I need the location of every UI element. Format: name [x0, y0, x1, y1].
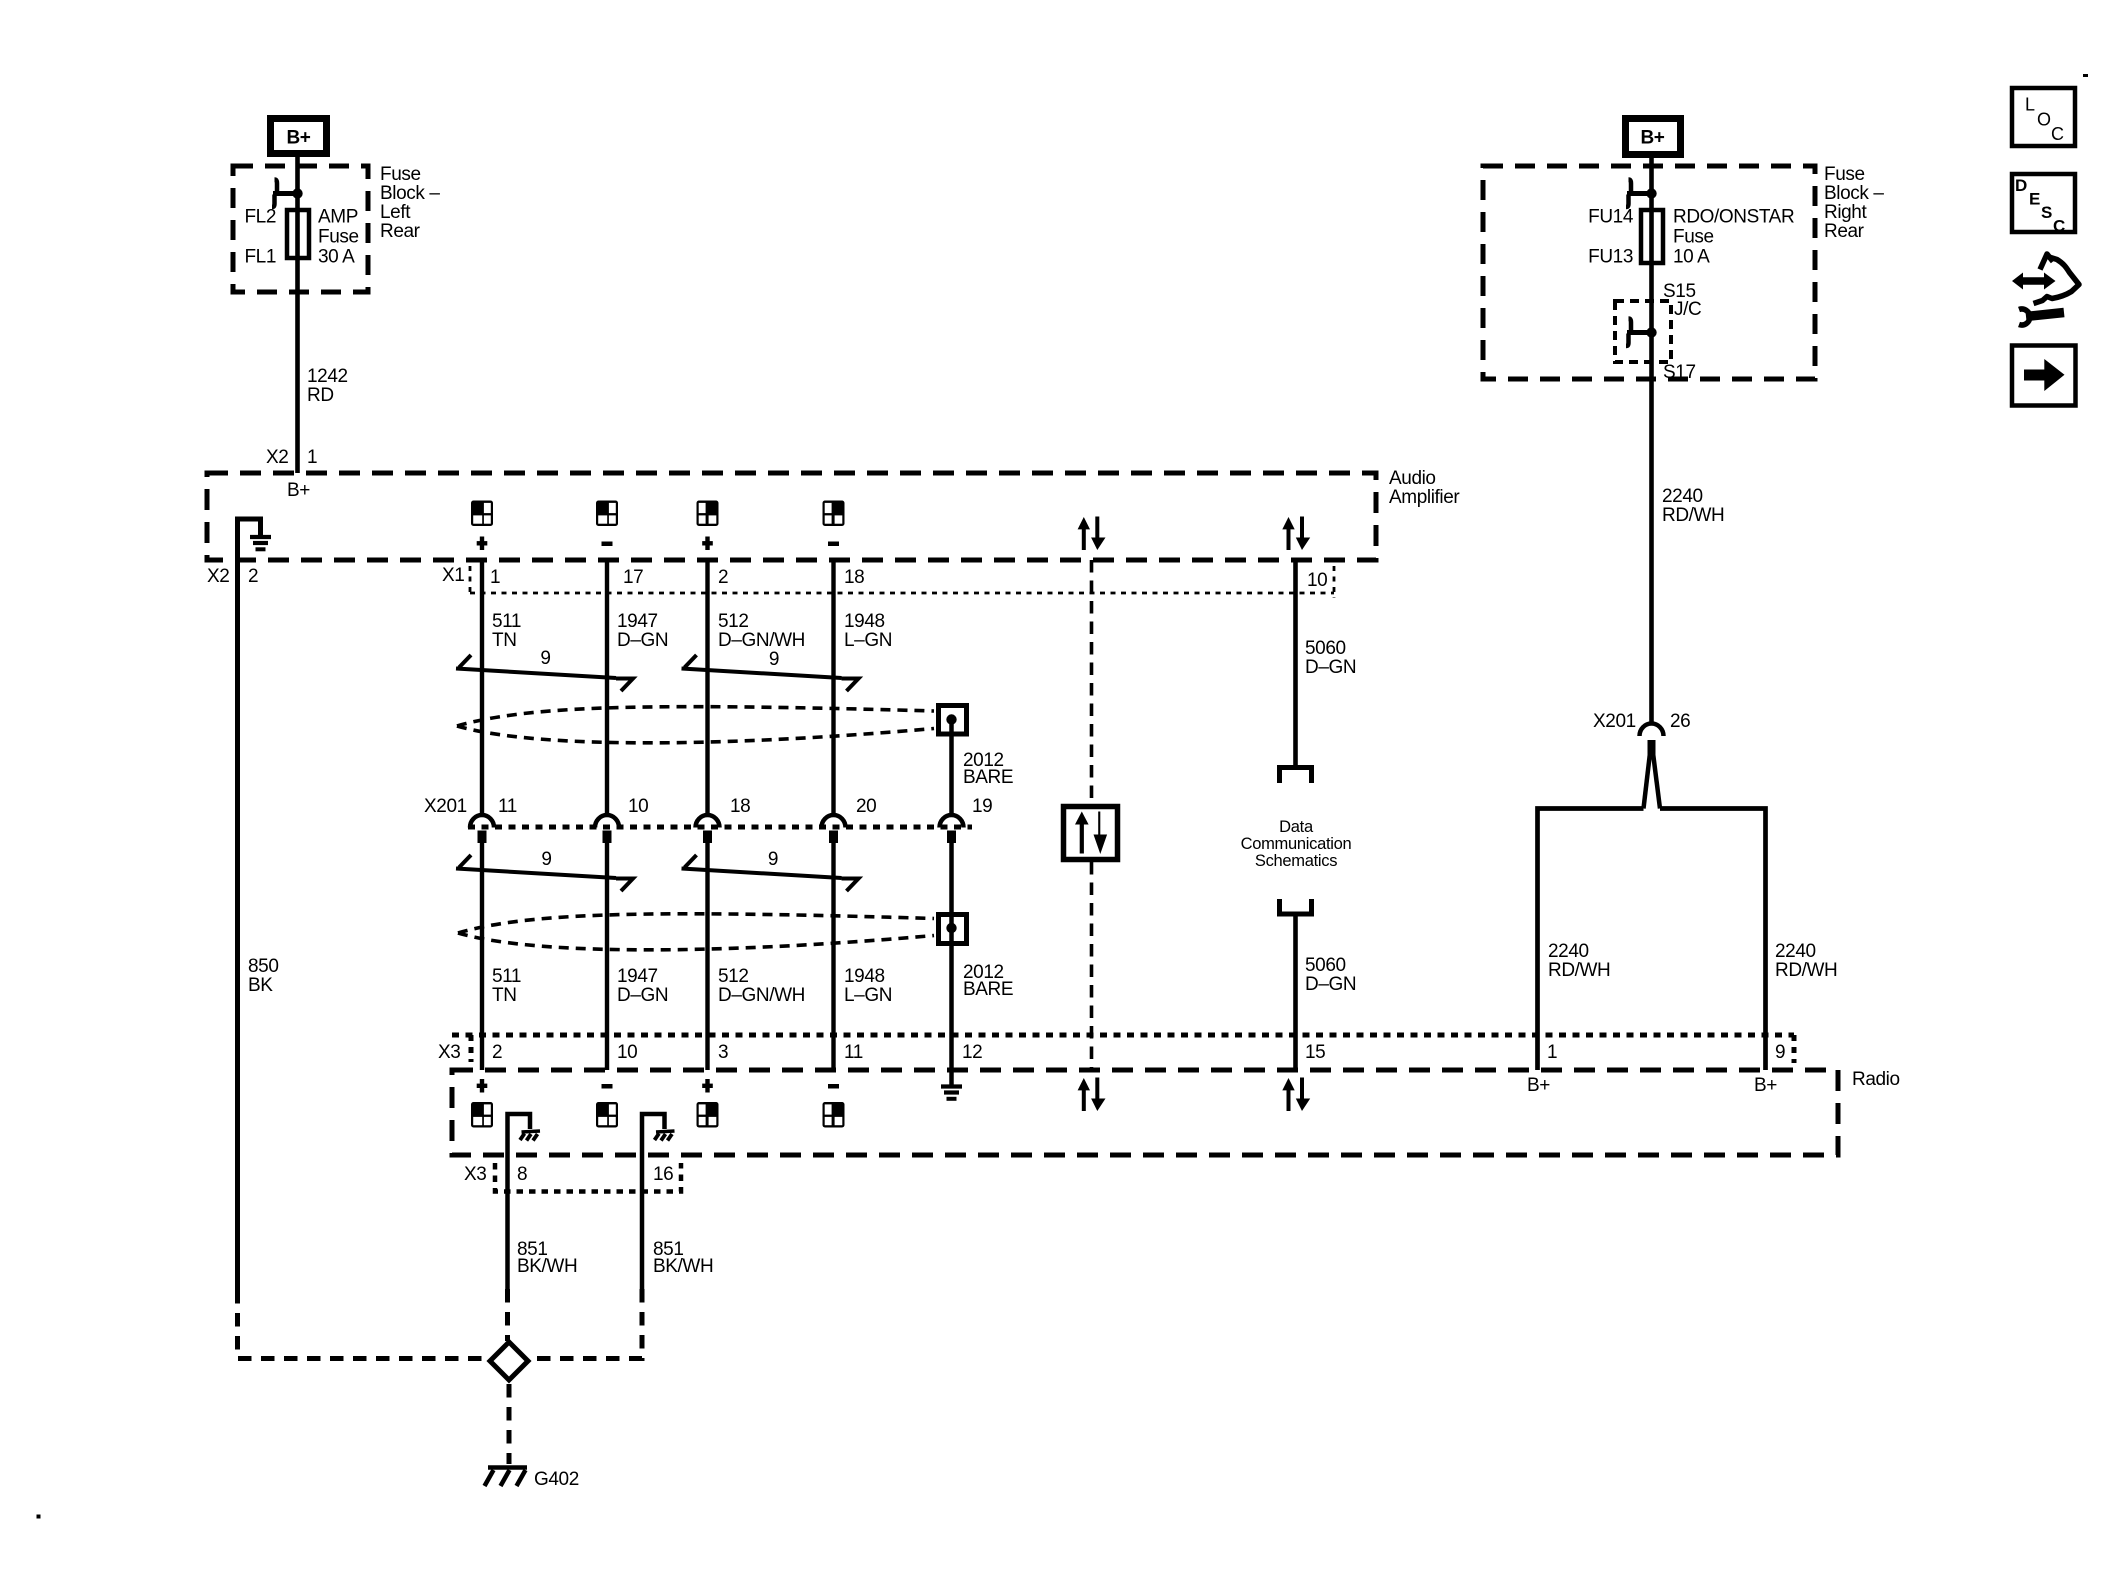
polarity label - (amp 2)	[602, 542, 613, 547]
svg-text:E: E	[2029, 190, 2040, 209]
label S17 (splice)	[1663, 362, 1696, 383]
svg-text:1948: 1948	[844, 611, 885, 632]
wire label 851 BK/WH (left)	[517, 1239, 577, 1277]
svg-text:2240: 2240	[1775, 941, 1816, 962]
svg-text:Communication: Communication	[1241, 835, 1352, 853]
svg-text:X201: X201	[424, 796, 467, 817]
speaker symbol (amp channel 4)	[823, 501, 845, 527]
radio internal ground wire (pin 16) with chassis ground	[642, 1114, 675, 1289]
wire 1948 L-GN (amp to X201)	[831, 560, 835, 816]
svg-text:Block –: Block –	[1824, 183, 1884, 204]
svg-text:9: 9	[769, 649, 779, 670]
label AMP Fuse 30 A	[318, 207, 359, 268]
speaker symbol (radio channel 4)	[823, 1102, 845, 1128]
svg-text:2240: 2240	[1548, 941, 1589, 962]
pin 2 label (X3/radio)	[492, 1042, 502, 1063]
twisted pair count 9 (lower right)	[768, 849, 778, 870]
fuse FU13/FU14 RDO/ONSTAR 10 A	[1641, 210, 1663, 263]
svg-text:511: 511	[492, 966, 521, 987]
speaker symbol (amp channel 3)	[697, 501, 719, 527]
svg-text:17: 17	[623, 567, 643, 588]
wire label 1948 (upper)	[844, 611, 892, 651]
wire 1947 D-GN (amp to X201)	[605, 560, 609, 816]
svg-text:10 A: 10 A	[1673, 247, 1710, 268]
radio box (dashed)	[452, 1070, 1838, 1155]
serial data arrows pair 2 (radio)	[1282, 1078, 1310, 1112]
svg-text:BK/WH: BK/WH	[653, 1256, 713, 1277]
connector X201 line (dotted)	[468, 825, 972, 830]
wire 511 TN (amp to X201)	[480, 560, 484, 816]
connector X1 end bracket (dotted)	[1333, 566, 1336, 598]
fuse FL1/FL2 AMP Fuse 30 A	[287, 210, 309, 258]
wire 1947 (X201 to radio)	[605, 843, 609, 1070]
svg-text:2: 2	[492, 1042, 502, 1063]
power terminal B+ (battery feed, left)	[271, 119, 327, 154]
audio amplifier box (dashed)	[207, 473, 1376, 560]
label FU14	[1588, 207, 1634, 228]
speaker symbol (radio channel 3)	[697, 1102, 719, 1128]
drain junction box (lower) with dot	[939, 915, 967, 944]
svg-text:L–GN: L–GN	[844, 985, 892, 1006]
connector X201 terminal pin 26	[1640, 723, 1664, 757]
svg-text:TN: TN	[492, 985, 517, 1006]
svg-text:Rear: Rear	[380, 221, 421, 242]
serial data arrows pair 1 (amp)	[1078, 517, 1106, 551]
svg-text:8: 8	[517, 1164, 527, 1185]
svg-text:1947: 1947	[617, 966, 658, 987]
wire label 512 (lower)	[718, 966, 805, 1006]
pin 19 label (X201)	[972, 796, 992, 817]
speaker symbol (amp channel 1)	[471, 501, 493, 527]
pin 2 label (X1)	[718, 567, 728, 588]
svg-text:RD/WH: RD/WH	[1775, 960, 1837, 981]
splice diamond (ground junction)	[490, 1342, 528, 1380]
wire 511 (X201 to radio)	[480, 843, 484, 1070]
wire label 851 BK/WH (right)	[653, 1239, 713, 1277]
wire 850 BK (solid segment)	[235, 517, 240, 1291]
label FL1	[244, 247, 276, 268]
svg-text:D: D	[2015, 176, 2027, 195]
svg-text:Fuse: Fuse	[318, 227, 359, 248]
wire label 850 BK	[248, 956, 279, 996]
wire 2240 RD/WH split (Y and branch rectangle)	[1538, 753, 1766, 1070]
off-page bracket (upper)	[1280, 768, 1312, 784]
svg-text:D–GN: D–GN	[1305, 974, 1356, 995]
connector X1 line (dotted)	[470, 592, 1334, 595]
svg-text:18: 18	[844, 567, 864, 588]
svg-text:TN: TN	[492, 630, 517, 651]
svg-text:X3: X3	[438, 1042, 460, 1063]
svg-text:9: 9	[540, 648, 550, 669]
connector X3 label	[438, 1042, 460, 1063]
connector X201 terminal (pin 18)	[696, 815, 720, 843]
svg-text:1242: 1242	[307, 366, 348, 387]
pin 9 label (X3/radio)	[1775, 1042, 1785, 1063]
svg-text:1: 1	[490, 567, 500, 588]
svg-text:26: 26	[1670, 711, 1690, 732]
pin 18 label (X1)	[844, 567, 864, 588]
svg-text:B+: B+	[1527, 1075, 1550, 1096]
svg-text:BARE: BARE	[963, 979, 1013, 1000]
svg-text:30 A: 30 A	[318, 247, 355, 268]
pin 10 label (X201)	[628, 796, 648, 817]
svg-text:X201: X201	[1593, 711, 1636, 732]
node B+ label (radio pin 9)	[1754, 1075, 1777, 1096]
speaker symbol (radio channel 1)	[471, 1102, 493, 1128]
fuse block - left rear (dashed box)	[233, 166, 368, 292]
label S15 (splice)	[1663, 281, 1696, 302]
svg-text:Fuse: Fuse	[1824, 164, 1865, 185]
pin 3 label (X3/radio)	[718, 1042, 728, 1063]
svg-text:512: 512	[718, 611, 749, 632]
svg-text:B+: B+	[1640, 128, 1664, 149]
power terminal B+ (battery feed, right)	[1626, 119, 1681, 155]
svg-text:2: 2	[718, 567, 728, 588]
svg-text:S17: S17	[1663, 362, 1696, 383]
wire 2012 BARE (drain, lower segment)	[949, 843, 954, 1070]
pin 11 label (X3/radio)	[844, 1042, 863, 1063]
svg-text:C: C	[2051, 124, 2064, 144]
label J/C	[1674, 299, 1701, 320]
svg-text:Left: Left	[380, 202, 411, 223]
ground G402 (chassis ground)	[485, 1468, 528, 1487]
connector X201 label	[424, 796, 467, 817]
wire 5060 D-GN (upper segment)	[1293, 560, 1298, 766]
wire label 511 (upper)	[492, 611, 521, 651]
svg-text:FU14: FU14	[1588, 207, 1634, 228]
svg-text:FU13: FU13	[1588, 247, 1633, 268]
svg-text:12: 12	[962, 1042, 982, 1063]
svg-text:10: 10	[1307, 570, 1327, 591]
svg-text:Radio: Radio	[1852, 1069, 1900, 1090]
node B+ label (radio pin 1)	[1527, 1075, 1550, 1096]
svg-text:D–GN: D–GN	[1305, 657, 1356, 678]
label Radio	[1852, 1069, 1900, 1090]
pin 20 label (X201)	[856, 796, 876, 817]
svg-text:S: S	[2041, 203, 2052, 222]
svg-text:511: 511	[492, 611, 521, 632]
connector X3 line (dotted)	[452, 1033, 1794, 1038]
pin 17 label (X1)	[623, 567, 643, 588]
connector X2 pin 1 label	[266, 447, 317, 468]
wire 2012 BARE (drain, upper segment)	[949, 720, 954, 816]
svg-text:X3: X3	[464, 1164, 486, 1185]
wire label 1947 (upper)	[617, 611, 668, 651]
wire label 512 (upper)	[718, 611, 805, 651]
label Data Communication Schematics	[1241, 818, 1352, 870]
connector X201 terminal (pin 19)	[940, 815, 964, 843]
label Fuse Block - Left Rear	[380, 164, 440, 242]
polarity label + (radio 1)	[477, 1079, 488, 1093]
polarity label + (radio 3)	[702, 1079, 713, 1093]
pin 18 label (X201)	[730, 796, 750, 817]
fuse block - right rear (dashed box)	[1483, 166, 1815, 379]
svg-text:RD: RD	[307, 385, 334, 406]
wire 850 BK (dashed segment)	[238, 1290, 485, 1359]
svg-text:X1: X1	[442, 565, 464, 586]
serial data arrows pair 2 (amp)	[1282, 517, 1310, 551]
pin 26 label	[1670, 711, 1690, 732]
polarity label - (radio 4)	[828, 1084, 839, 1089]
shield ellipse (upper, dashed)	[457, 707, 934, 743]
svg-text:BARE: BARE	[963, 767, 1013, 788]
svg-text:X2: X2	[266, 447, 288, 468]
icon box LOC	[2012, 88, 2075, 146]
ground symbol inside amplifier	[250, 537, 271, 549]
svg-text:D–GN/WH: D–GN/WH	[718, 630, 805, 651]
svg-text:10: 10	[617, 1042, 637, 1063]
twisted pair symbol (lower right pair)	[682, 855, 859, 891]
wire label 2240 RD/WH (left branch)	[1548, 941, 1610, 981]
pin 8 label	[517, 1164, 527, 1185]
serial data circuit (dashed wire, lower)	[1090, 862, 1094, 1070]
svg-text:Schematics: Schematics	[1255, 852, 1337, 870]
connector X201 terminal (pin 20)	[822, 815, 846, 843]
polarity label - (amp 4)	[828, 542, 839, 547]
svg-text:2: 2	[248, 566, 258, 587]
svg-text:C: C	[2053, 217, 2065, 236]
wire to G402 (dashed)	[507, 1384, 512, 1464]
svg-text:1948: 1948	[844, 966, 885, 987]
connector X201 terminal (pin 10)	[595, 815, 619, 843]
junction connector J/C box (dashed)	[1615, 301, 1671, 362]
pin 1 label (X3/radio)	[1547, 1042, 1557, 1063]
pin 12 label (X3/radio)	[962, 1042, 982, 1063]
polarity label - (radio 2)	[602, 1084, 613, 1089]
pin 10 label (X1)	[1307, 570, 1327, 591]
wire label 5060 D-GN (lower)	[1305, 955, 1356, 995]
speaker symbol (radio channel 2)	[596, 1102, 618, 1128]
svg-text:FL1: FL1	[244, 247, 276, 268]
svg-text:RD/WH: RD/WH	[1662, 505, 1724, 526]
svg-text:20: 20	[856, 796, 876, 817]
connector X1 bracket (dotted)	[469, 566, 472, 593]
polarity label + (amp 3)	[702, 537, 713, 551]
twisted pair symbol (upper right pair)	[682, 655, 859, 691]
svg-text:1: 1	[307, 447, 317, 468]
icon vehicle-with-arrows and wrench	[2012, 254, 2079, 325]
svg-text:512: 512	[718, 966, 749, 987]
connector X1 label	[442, 565, 464, 586]
svg-text:5060: 5060	[1305, 955, 1346, 976]
svg-text:BK/WH: BK/WH	[517, 1256, 577, 1277]
label FU13	[1588, 247, 1633, 268]
svg-text:Data: Data	[1279, 818, 1314, 836]
svg-text:19: 19	[972, 796, 992, 817]
wire from right B+ through fuse block (2240 RD/WH upper)	[1649, 158, 1654, 723]
svg-text:Rear: Rear	[1824, 221, 1865, 242]
svg-text:Block –: Block –	[380, 183, 440, 204]
speaker symbol (amp channel 2)	[596, 501, 618, 527]
wire label 2012 BARE (upper)	[963, 750, 1013, 788]
serial data arrows pair 1 (radio)	[1078, 1078, 1106, 1112]
svg-text:Amplifier: Amplifier	[1389, 487, 1460, 508]
wire 851 BK/WH left (dashed segment)	[505, 1289, 510, 1341]
pin 11 label (X201)	[498, 796, 517, 817]
svg-text:BK: BK	[248, 975, 273, 996]
wire label 1242 RD	[307, 366, 348, 406]
svg-text:O: O	[2037, 110, 2051, 130]
connector X2 pin 2 label	[207, 566, 258, 587]
terminal curl symbol FU14 (right fuse block)	[1626, 180, 1657, 208]
svg-text:D–GN: D–GN	[617, 985, 668, 1006]
svg-text:L–GN: L–GN	[844, 630, 892, 651]
svg-text:D–GN/WH: D–GN/WH	[718, 985, 805, 1006]
svg-text:RD/WH: RD/WH	[1548, 960, 1610, 981]
wire 851 BK/WH right (dashed segment)	[536, 1289, 642, 1359]
pin 15 label (X3/radio)	[1305, 1042, 1325, 1063]
stray mark bottom left	[37, 1515, 41, 1519]
connector X201 terminal (pin 11)	[470, 815, 494, 843]
ground symbol (radio pin 12)	[941, 1070, 962, 1099]
svg-text:D–GN: D–GN	[617, 630, 668, 651]
pin 1 label (X1)	[490, 567, 500, 588]
radio internal ground wire (pin 8) with chassis ground	[508, 1114, 541, 1289]
svg-text:16: 16	[653, 1164, 673, 1185]
connector X201 label (right)	[1593, 711, 1636, 732]
svg-text:10: 10	[628, 796, 648, 817]
pin 10 label (X3/radio)	[617, 1042, 637, 1063]
terminal curl symbol inside J/C	[1626, 319, 1657, 347]
svg-text:Right: Right	[1824, 202, 1867, 223]
wire 512 D-GN/WH (amp to X201)	[705, 560, 709, 816]
svg-text:1947: 1947	[617, 611, 658, 632]
connector X3 label (ground pins)	[464, 1164, 486, 1185]
label Fuse Block - Right Rear	[1824, 164, 1884, 242]
wire label 1947 (lower)	[617, 966, 668, 1006]
svg-text:5060: 5060	[1305, 638, 1346, 659]
svg-text:9: 9	[768, 849, 778, 870]
wire 1948 (X201 to radio)	[831, 843, 835, 1070]
svg-text:11: 11	[844, 1042, 863, 1063]
twisted pair symbol (upper left pair)	[456, 655, 633, 691]
off-page bracket (lower)	[1280, 899, 1312, 914]
connector X3 bracket (dotted)	[469, 1035, 474, 1062]
svg-text:11: 11	[498, 796, 517, 817]
svg-text:1: 1	[1547, 1042, 1557, 1063]
svg-text:X2: X2	[207, 566, 229, 587]
svg-text:15: 15	[1305, 1042, 1325, 1063]
label G402	[534, 1469, 579, 1490]
svg-text:RDO/ONSTAR: RDO/ONSTAR	[1673, 207, 1794, 228]
svg-text:FL2: FL2	[244, 207, 276, 228]
wire 512 (X201 to radio)	[705, 843, 709, 1070]
svg-text:Fuse: Fuse	[1673, 227, 1714, 248]
svg-text:J/C: J/C	[1674, 299, 1701, 320]
label FL2	[244, 207, 276, 228]
pin 16 label	[653, 1164, 673, 1185]
wire label 511 (lower)	[492, 966, 521, 1006]
label Audio Amplifier	[1389, 468, 1460, 508]
terminal curl symbol FL2 (left fuse block)	[272, 180, 303, 208]
svg-text:L: L	[2025, 95, 2035, 115]
svg-text:18: 18	[730, 796, 750, 817]
svg-text:B+: B+	[1754, 1075, 1777, 1096]
svg-text:AMP: AMP	[318, 207, 358, 228]
wire label 2012 BARE (lower)	[963, 962, 1013, 1000]
wire from B+ to amp fuse (1242 RD upper)	[295, 157, 300, 473]
twisted pair count 9 (upper left)	[540, 648, 550, 669]
svg-text:B+: B+	[287, 480, 310, 501]
svg-text:9: 9	[1775, 1042, 1785, 1063]
shield ellipse (lower, dashed)	[458, 914, 934, 950]
twisted pair symbol (lower left pair)	[456, 855, 633, 891]
svg-text:Audio: Audio	[1389, 468, 1436, 489]
polarity label + (amp 1)	[477, 537, 488, 551]
stray mark top right	[2083, 74, 2088, 77]
wire 5060 D-GN (lower segment)	[1293, 914, 1298, 1070]
svg-text:Fuse: Fuse	[380, 164, 421, 185]
wire label 1948 (lower)	[844, 966, 892, 1006]
svg-text:9: 9	[541, 849, 551, 870]
label RDO/ONSTAR Fuse 10 A	[1673, 207, 1794, 268]
svg-text:B+: B+	[286, 128, 310, 149]
twisted pair count 9 (upper right)	[769, 649, 779, 670]
connector X3 end bracket (dotted)	[1792, 1035, 1797, 1063]
wire label 5060 D-GN (upper)	[1305, 638, 1356, 678]
svg-text:3: 3	[718, 1042, 728, 1063]
twisted pair count 9 (lower left)	[541, 849, 551, 870]
node B+ label inside amplifier	[287, 480, 310, 501]
svg-text:2240: 2240	[1662, 486, 1703, 507]
connector X3 8/16 bracket (dotted)	[495, 1163, 681, 1192]
serial data bidirectional box	[1064, 807, 1118, 860]
serial data circuit (dashed wire, upper)	[1090, 560, 1094, 804]
wire label 2240 RD/WH (main)	[1662, 486, 1724, 526]
icon box DESC	[2012, 174, 2075, 236]
svg-text:850: 850	[248, 956, 279, 977]
amplifier internal ground wire bend	[238, 519, 261, 536]
drain junction box (upper) with dot	[939, 706, 967, 735]
wire label 2240 RD/WH (right branch)	[1775, 941, 1837, 981]
svg-text:G402: G402	[534, 1469, 579, 1490]
icon box right-arrow	[2012, 346, 2076, 406]
